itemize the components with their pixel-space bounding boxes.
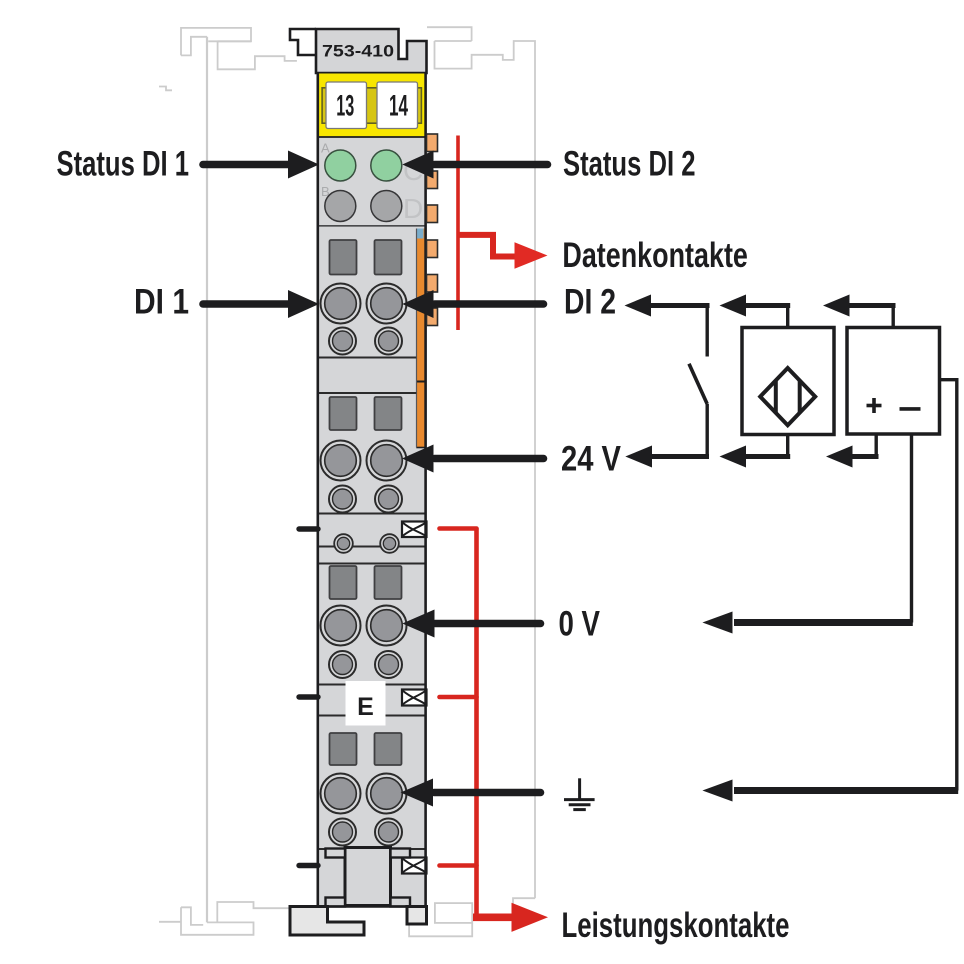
svg-text:D: D [403, 193, 423, 224]
svg-text:14: 14 [389, 90, 408, 123]
svg-text:DI 1: DI 1 [134, 283, 189, 322]
svg-text:13: 13 [336, 90, 354, 123]
svg-text:E: E [357, 693, 374, 721]
svg-text:DI 2: DI 2 [564, 283, 616, 322]
svg-text:0 V: 0 V [559, 605, 601, 644]
svg-text:24 V: 24 V [561, 440, 622, 479]
svg-text:Status DI 1: Status DI 1 [57, 145, 190, 184]
svg-text:A: A [321, 141, 330, 156]
svg-text:753-410: 753-410 [322, 42, 394, 61]
svg-text:Leistungskontakte: Leistungskontakte [562, 906, 790, 945]
svg-text:Status DI 2: Status DI 2 [563, 145, 696, 184]
svg-text:Datenkontakte: Datenkontakte [562, 236, 748, 275]
